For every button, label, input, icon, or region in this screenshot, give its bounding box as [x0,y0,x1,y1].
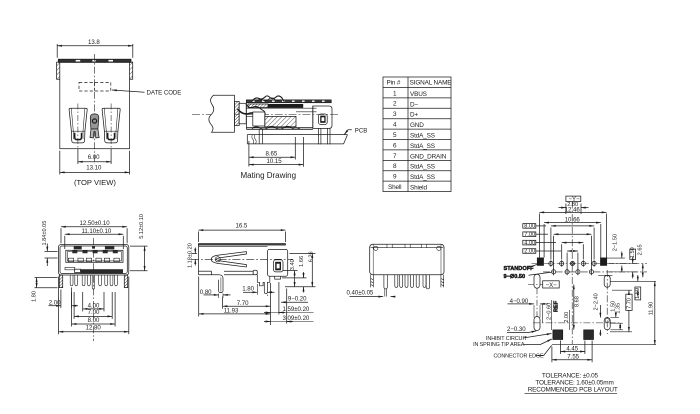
boxed dim 7.70 right [610,290,633,332]
recommended pcb layout caption [525,387,618,394]
dim 13.10 bottom [60,151,130,175]
side rear step and leg [257,275,270,294]
plug overmold with break lines [209,95,235,132]
boxed dim 4.00 [523,240,584,259]
dim 2-0.30 [507,326,536,333]
upper contact dark band [248,104,303,108]
svg-text:8.65: 8.65 [266,150,278,157]
svg-text:0.40±0.05: 0.40±0.05 [347,289,374,296]
receptacle legs through PCB [259,128,330,144]
row1 centerline [532,263,648,265]
dim 4.45 [561,341,585,355]
dim 1.80 left bottom [32,278,58,302]
svg-text:8.68: 8.68 [574,296,580,307]
dim 12.46 [539,206,606,257]
rear body [370,244,444,274]
svg-text:7.70: 7.70 [627,298,633,309]
svg-text:2−1.50: 2−1.50 [613,234,619,251]
pin 3 D+ [393,111,418,119]
dim 13.8 top [57,39,133,58]
front thru legs [70,275,117,289]
svg-text:StdA_SS: StdA_SS [410,133,435,140]
plug shell hatched [234,102,246,126]
svg-text:6.00: 6.00 [88,154,100,161]
smt pad left [553,330,563,340]
svg-text:9: 9 [393,174,397,181]
tolerance line 1 [542,372,599,379]
svg-text:1.84±0.05: 1.84±0.05 [42,221,48,246]
pin 4 GND [393,122,424,130]
svg-text:(TOP VIEW): (TOP VIEW) [74,178,116,187]
svg-text:16.5: 16.5 [236,223,248,230]
smt pad right [584,330,594,340]
top view right ear [130,62,133,79]
caption (TOP VIEW) [74,178,116,187]
dim 4-0.90 [508,298,549,305]
contact spring squiggle [238,104,266,116]
side front leg [219,275,223,293]
side body left and bottom [199,244,220,275]
svg-text:1.59: 1.59 [635,288,641,299]
svg-text:StdA_SS: StdA_SS [410,143,435,150]
dim 2-1.50 vertical [607,234,625,272]
svg-text:4.00: 4.00 [524,240,535,246]
svg-text:StdA_SS: StdA_SS [410,164,435,171]
svg-text:7.00: 7.00 [524,232,535,238]
svg-text:1.66: 1.66 [299,256,305,267]
svg-text:−X−: −X− [546,282,558,289]
svg-text:Pin #: Pin # [387,80,401,87]
PCB board [247,135,347,144]
dim 2.80 [559,202,589,214]
lower squiggle springs [252,126,300,129]
pcb vertical centerline [571,202,573,345]
svg-text:1.18±0.20: 1.18±0.20 [188,243,194,268]
row2 centerline [543,271,647,273]
svg-text:RECOMMENDED PCB LAYOUT: RECOMMENDED PCB LAYOUT [528,387,618,394]
dim 2-0.60 vertical [543,300,553,330]
top view left ear [57,62,60,79]
inhibit circuit label [473,334,552,349]
peg centerlines [78,104,111,149]
svg-text:1.80: 1.80 [32,291,38,302]
table grid [383,77,451,192]
front right stub leg [124,275,127,288]
front tongue bar [65,267,123,273]
dim 0.80 [200,289,231,298]
right column centerline [606,270,608,334]
PCB label and leader [344,127,367,134]
dim 2.65 vertical [638,244,644,277]
svg-text:1.80: 1.80 [242,286,254,293]
svg-text:Shell: Shell [388,184,401,191]
top view right mounting peg [102,108,120,143]
connector edge line [552,344,656,346]
svg-text:DATE CODE: DATE CODE [147,90,182,97]
svg-text:StdA_SS: StdA_SS [410,174,435,181]
pin 9 StdA_SS [393,174,435,182]
tongue hatched block [265,116,296,126]
side latch spring beak [211,252,246,267]
dim 1.59±0.20 [264,282,314,315]
svg-text:7: 7 [393,153,397,160]
front view centerline [92,238,94,341]
svg-text:4: 4 [393,122,397,129]
left upper oval [534,274,540,288]
svg-text:6: 6 [393,142,397,149]
top view left mounting peg [69,108,87,143]
latch springs above shell [252,96,284,102]
dim 12.80 [59,277,129,335]
front shell top tabs [74,246,115,249]
boxed dim 1.59 right [635,275,641,300]
svg-text:GND_DRAIN: GND_DRAIN [410,153,447,160]
dim 11.93 [199,277,271,317]
contact holder white box [253,112,265,126]
pin 1 VBUS [393,90,427,98]
dim 2-2.40 vertical [593,293,600,336]
rear side tabs [371,275,444,288]
front lower contacts on tongue [68,258,119,262]
boxed dim 8.00 [523,224,594,260]
dim 2.00 [49,288,79,309]
svg-text:2: 2 [393,101,397,108]
left lower oval [533,288,621,330]
boxed dim 7.00 [523,232,592,270]
right lower oval [604,318,610,330]
top view center small peg [90,114,99,138]
pin 8 StdA_SS [393,163,435,171]
side shell top band [199,244,286,247]
svg-text:7.70: 7.70 [237,300,249,307]
svg-text:5: 5 [393,132,397,139]
REF bold vertical [554,300,560,312]
svg-text:12.50±0.10: 12.50±0.10 [80,220,111,227]
front opening [66,250,123,262]
dim 2.00 vertical [564,310,570,330]
svg-text:5.12±0.10: 5.12±0.10 [139,214,145,239]
dim 7.55 [552,341,592,363]
svg-text:2−0.30: 2−0.30 [507,326,526,333]
dim 7.00 [74,292,112,319]
date code label and leader [112,90,181,97]
svg-text:2−2.40: 2−2.40 [593,293,599,310]
receptacle bottom lines [246,103,312,130]
dim 7.70 side [223,283,271,325]
svg-text:1.35: 1.35 [615,303,621,314]
svg-text:8.00: 8.00 [88,317,100,324]
table header [387,80,452,87]
svg-text:11.90: 11.90 [648,302,654,316]
svg-text:D+: D+ [410,112,418,119]
svg-text:10.15: 10.15 [267,158,283,165]
dim 6.26 right [285,251,316,286]
dim 8.68 vertical [574,285,581,330]
dim 3.40 right [283,259,298,286]
pin 7 GND_DRAIN [393,153,447,161]
dim 1.50 lower right vertical [610,301,619,318]
dim 4.00 [83,292,104,311]
svg-text:9−Ø0.50: 9−Ø0.50 [504,274,526,280]
left shell pad black [537,258,543,266]
datum -Y- box [566,196,581,203]
dim 9-0.20 [281,295,308,302]
svg-text:SIGNAL NAME: SIGNAL NAME [410,80,452,87]
top view vertical centerline [94,54,96,164]
svg-text:INHIBIT CIRCUIT: INHIBIT CIRCUIT [486,336,528,342]
svg-text:9−0.20: 9−0.20 [288,295,307,302]
dim 5.12±0.10 right [130,214,148,271]
dim 0.40±0.05 [347,289,396,296]
svg-text:VBUS: VBUS [410,91,427,98]
shell shield row [388,184,427,192]
dim 10.15 [249,137,304,167]
right end assembly [313,106,332,128]
dim 1.84±0.05 left [42,221,58,266]
date code dashed rectangle [79,82,111,91]
svg-text:3.40: 3.40 [290,259,296,270]
svg-text:IN SPRING TIP AREA: IN SPRING TIP AREA [473,342,525,348]
svg-text:8: 8 [393,163,397,170]
dim 1.80 side [242,284,274,296]
boxed dim 2.00 [523,249,578,270]
tolerance line 2 [535,380,613,387]
dim 11.90 vertical [610,281,656,344]
caption Mating Drawing [241,171,297,180]
front left stub leg [59,275,62,288]
svg-text:1.50: 1.50 [630,247,636,258]
front shell outer [59,245,129,276]
datum -X- box [528,281,559,289]
svg-text:8.00: 8.00 [524,224,535,230]
dim 1.66 right [282,256,307,293]
svg-text:13.8: 13.8 [88,39,100,46]
row2 hole pads [552,269,594,276]
right upper oval [598,275,612,287]
dim 1.18±0.20 left [188,243,198,268]
dim 16.5 [199,223,286,242]
dim 3.09±0.20 [264,289,314,324]
9-Ø0.50 bold label [504,272,552,280]
svg-text:12.80: 12.80 [86,325,102,332]
svg-text:1: 1 [393,90,397,97]
svg-text:7.00: 7.00 [88,309,100,316]
svg-text:TOLERANCE: 1.60±0.05mm: TOLERANCE: 1.60±0.05mm [535,380,613,387]
side right box [268,249,288,279]
top view body outline [60,62,130,149]
mating centerline [192,114,340,116]
svg-text:7.55: 7.55 [567,353,579,360]
dim 1.35 lower right vertical [610,303,623,330]
svg-text:Mating Drawing: Mating Drawing [241,171,297,180]
dim 11.10±0.10 [65,228,124,249]
svg-text:2.00: 2.00 [524,249,535,255]
STANDOFF bold label [504,265,538,273]
svg-text:Shield: Shield [410,185,427,192]
svg-text:D−: D− [410,101,418,108]
boxed dim 1.50 right [609,247,637,278]
dim 12.50±0.10 [61,220,127,243]
pin 6 StdA_SS [393,142,435,150]
svg-text:3: 3 [393,111,397,118]
svg-text:13.10: 13.10 [86,165,102,172]
svg-text:TOLERANCE: ±0.05: TOLERANCE: ±0.05 [542,372,599,379]
svg-text:11.10±0.10: 11.10±0.10 [82,228,112,235]
tongue rails [246,108,316,116]
dim 10.66 [544,217,601,258]
svg-text:PCB: PCB [355,127,367,134]
right shell pad black [601,258,607,266]
pin 5 StdA_SS [393,132,435,140]
dim 8.00 [72,292,116,327]
svg-text:2.65: 2.65 [638,244,644,255]
side insulator shelf [224,270,257,275]
svg-text:REF: REF [554,300,560,312]
side centerline [191,258,293,260]
pin 2 D- [393,101,418,109]
connector edge label [494,345,552,359]
dim 6.00 bottom [78,149,111,164]
svg-text:GND: GND [410,122,424,129]
top view shell flange bar [58,59,131,62]
dim 8.65 [249,137,295,167]
row1 hole pads [549,260,596,267]
receptacle shell top band with stitch marks [246,100,331,103]
svg-text:CONNECTOR EDGE: CONNECTOR EDGE [494,353,545,359]
front top SS contacts [72,250,118,253]
rear legs [384,275,430,297]
